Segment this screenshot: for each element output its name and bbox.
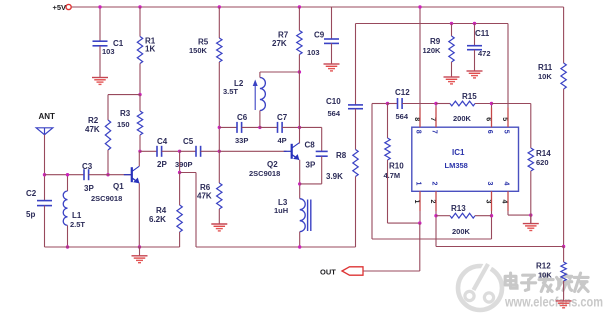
label C11 value 472 bbox=[478, 49, 491, 58]
label ANT bbox=[39, 112, 56, 121]
node junction pin7-R15 bbox=[434, 102, 437, 105]
capacitor C1 bbox=[93, 41, 108, 46]
svg-text:C12: C12 bbox=[395, 88, 410, 97]
label R3 bbox=[120, 109, 131, 118]
resistor R1 bbox=[137, 37, 142, 64]
svg-text:7: 7 bbox=[429, 117, 436, 121]
svg-text:1: 1 bbox=[415, 182, 422, 186]
svg-text:R13: R13 bbox=[451, 204, 466, 213]
svg-text:R4: R4 bbox=[156, 206, 167, 215]
watermark logo circle bbox=[458, 263, 502, 310]
svg-text:200K: 200K bbox=[452, 227, 471, 236]
svg-text:47K: 47K bbox=[85, 125, 100, 134]
label R8 bbox=[336, 151, 347, 160]
wire R8 to rail bbox=[355, 177, 357, 248]
wire rail right corner bbox=[563, 7, 565, 63]
label L2 value 3.5T bbox=[223, 87, 238, 96]
node junction pin4-R14 bbox=[529, 213, 532, 216]
node junction R10 top bbox=[386, 102, 389, 105]
svg-text:6: 6 bbox=[484, 117, 491, 121]
svg-text:564: 564 bbox=[396, 112, 409, 121]
svg-text:C4: C4 bbox=[157, 137, 168, 146]
label R14 bbox=[536, 149, 551, 158]
node junction rail-R1 bbox=[138, 5, 141, 8]
svg-text:103: 103 bbox=[307, 48, 320, 57]
pin name 5 inside bbox=[503, 130, 510, 134]
label C5 value 390P bbox=[175, 160, 193, 169]
label C2 value 5p bbox=[26, 210, 35, 219]
svg-text:8: 8 bbox=[413, 117, 420, 121]
pin number 2 outside bbox=[429, 200, 436, 204]
resistor R5 bbox=[217, 38, 222, 62]
svg-text:C6: C6 bbox=[237, 113, 248, 122]
svg-text:3.9K: 3.9K bbox=[326, 172, 343, 181]
wire pin4 chain bbox=[508, 191, 531, 215]
label R13 bbox=[451, 204, 466, 213]
wire nodeA to C5 bbox=[180, 150, 196, 152]
resistor R4 bbox=[177, 205, 182, 232]
transistor Q2 bbox=[284, 143, 300, 160]
wire pin8 to rail bbox=[419, 7, 421, 127]
wire C6 line left bbox=[219, 126, 237, 128]
svg-text:C9: C9 bbox=[314, 31, 325, 40]
resistor R2 bbox=[105, 120, 110, 150]
wire C1 from rail bbox=[99, 7, 101, 41]
pin name 6 inside bbox=[486, 130, 493, 134]
node junction emitter-rail bbox=[138, 245, 141, 248]
node junction L2-R7 bbox=[298, 70, 301, 73]
label R11 value 10K bbox=[538, 72, 552, 81]
label C11 bbox=[475, 29, 490, 38]
label L1 value 2.5T bbox=[70, 220, 85, 229]
label L3 bbox=[278, 198, 288, 207]
svg-text:OUT: OUT bbox=[320, 268, 336, 277]
label R13 value 200K bbox=[452, 227, 471, 236]
svg-text:3P: 3P bbox=[306, 161, 316, 170]
svg-text:1K: 1K bbox=[145, 45, 155, 54]
label C7 value 4P bbox=[278, 136, 287, 145]
watermark char you bbox=[574, 273, 588, 291]
svg-text:4: 4 bbox=[503, 182, 510, 186]
svg-text:Q1: Q1 bbox=[113, 182, 124, 191]
svg-text:4.7M: 4.7M bbox=[384, 171, 401, 180]
svg-text:2: 2 bbox=[431, 182, 438, 186]
svg-text:2: 2 bbox=[429, 200, 436, 204]
svg-text:ANT: ANT bbox=[39, 112, 56, 121]
pin number 7 outside bbox=[429, 117, 436, 121]
svg-text:10K: 10K bbox=[538, 72, 552, 81]
label R14 value 620 bbox=[536, 158, 549, 167]
wire collector to C4 bbox=[140, 150, 157, 152]
node junction B R5-R6-base bbox=[218, 150, 221, 153]
node junction pin1-out bbox=[418, 221, 421, 224]
wire pin7 stub bbox=[435, 104, 437, 128]
label C5 bbox=[183, 137, 194, 146]
inductor L2 bbox=[260, 78, 266, 111]
label R10 bbox=[389, 162, 404, 171]
svg-text:C10: C10 bbox=[326, 97, 341, 106]
wire C5 to nodeB bbox=[201, 150, 220, 152]
label R6 bbox=[200, 183, 211, 192]
svg-text:C7: C7 bbox=[277, 113, 288, 122]
node junction L3-rail bbox=[298, 245, 301, 248]
wire Q1 collector up bbox=[138, 151, 140, 166]
label C1 bbox=[113, 39, 124, 48]
watermark char shao bbox=[557, 274, 572, 290]
wire C4 to nodeA bbox=[162, 150, 180, 152]
resistor R14 bbox=[528, 148, 533, 171]
label C1 value 103 bbox=[102, 47, 115, 56]
ground under R6 bbox=[211, 224, 227, 231]
wire L1 bottom bbox=[67, 225, 69, 247]
ground under Q1 emitter bbox=[132, 247, 148, 263]
svg-text:R9: R9 bbox=[430, 37, 441, 46]
label R8 value 3.9K bbox=[326, 172, 343, 181]
label R9 value 120K bbox=[423, 46, 442, 55]
wire C9 to ground bbox=[331, 43, 333, 64]
svg-text:L1: L1 bbox=[72, 211, 82, 220]
wire base line left bbox=[45, 174, 85, 176]
resistor R11 bbox=[561, 63, 566, 89]
svg-text:472: 472 bbox=[478, 49, 491, 58]
wire C10 to R8 bbox=[355, 109, 357, 150]
node junction C7-collector bbox=[298, 126, 301, 129]
label C6 value 33P bbox=[235, 136, 248, 145]
svg-text:150: 150 bbox=[117, 120, 130, 129]
capacitor C5 bbox=[196, 146, 201, 157]
resistor R6 bbox=[217, 183, 222, 209]
node junction A C4-C5-R4 bbox=[178, 150, 181, 153]
label C4 value 2P bbox=[157, 160, 167, 169]
svg-text:C5: C5 bbox=[183, 137, 194, 146]
svg-text:R2: R2 bbox=[88, 116, 99, 125]
pin number 4 outside bbox=[501, 200, 508, 204]
label C12 bbox=[395, 88, 410, 97]
label C3 bbox=[82, 162, 93, 171]
svg-text:4P: 4P bbox=[278, 136, 287, 145]
wire rail to R5 bbox=[218, 7, 220, 38]
label L2 bbox=[234, 79, 244, 88]
resistor R9 bbox=[449, 36, 454, 62]
svg-text:2SC9018: 2SC9018 bbox=[249, 169, 280, 178]
label C4 bbox=[157, 137, 168, 146]
node junction rail-R7 bbox=[298, 5, 301, 8]
ground under R14 bbox=[523, 215, 539, 230]
svg-text:6: 6 bbox=[486, 130, 493, 134]
resistor R12 bbox=[561, 262, 566, 281]
watermark char zi bbox=[522, 275, 536, 290]
capacitor C6 bbox=[237, 122, 242, 133]
pin stubs of IC1 bbox=[420, 108, 508, 212]
pin number 5 outside bbox=[501, 117, 508, 121]
wire Q1 emitter down bbox=[138, 183, 140, 247]
watermark url text bbox=[504, 295, 603, 310]
svg-text:1uH: 1uH bbox=[274, 206, 288, 215]
label R3 value 150 bbox=[117, 120, 130, 129]
label R2 bbox=[88, 116, 99, 125]
wire right rail bbox=[196, 246, 356, 248]
antenna ANT bbox=[36, 128, 53, 135]
svg-text:2.5T: 2.5T bbox=[70, 220, 85, 229]
pin name 2 inside bbox=[431, 182, 438, 186]
svg-text:8: 8 bbox=[415, 130, 422, 134]
node junction bias-R9 bbox=[450, 22, 453, 25]
watermark char fa bbox=[539, 274, 553, 291]
svg-text:27K: 27K bbox=[272, 39, 287, 48]
resistor R13 bbox=[450, 213, 475, 218]
label Q2 bbox=[267, 160, 278, 169]
resistor R10 bbox=[385, 138, 390, 160]
ground under R12 bbox=[556, 301, 572, 308]
ground under R9 bbox=[444, 77, 460, 84]
node junction pin6-R15 bbox=[490, 102, 493, 105]
svg-text:C1: C1 bbox=[113, 39, 124, 48]
wire C2 to left rail bbox=[44, 206, 46, 247]
svg-text:564: 564 bbox=[328, 109, 341, 118]
wire pin3 chain bbox=[372, 104, 492, 240]
node junction R1-R2-R3 bbox=[138, 93, 141, 96]
wire R1 to node bbox=[139, 64, 141, 95]
pin name 8 inside bbox=[415, 130, 422, 134]
label Q1 bbox=[113, 182, 124, 191]
capacitor C3 bbox=[84, 169, 89, 180]
svg-text:C3: C3 bbox=[82, 162, 93, 171]
capacitor C8 bbox=[316, 151, 328, 156]
svg-text:+5V: +5V bbox=[53, 3, 67, 12]
label C6 bbox=[237, 113, 248, 122]
wire L2 top corner bbox=[260, 72, 300, 78]
capacitor C10 bbox=[348, 105, 363, 109]
inductor L3 bbox=[300, 199, 306, 232]
resistor R7 bbox=[297, 31, 302, 55]
wire C12 line left corner bbox=[372, 103, 388, 105]
wire node to R2 top bbox=[108, 95, 140, 120]
wire A2 to right rail bbox=[180, 173, 196, 248]
wire pin1 stub bbox=[419, 191, 421, 223]
svg-text:2SC9018: 2SC9018 bbox=[91, 194, 122, 203]
pin name 7 inside bbox=[431, 130, 438, 134]
svg-text:120K: 120K bbox=[423, 46, 442, 55]
wire Q2 collector bbox=[299, 127, 301, 143]
label L3 value 1uH bbox=[274, 206, 288, 215]
svg-text:5: 5 bbox=[501, 117, 508, 121]
wire R11 down bbox=[563, 89, 565, 247]
wire pin7node to R15 bbox=[436, 103, 450, 105]
pin number 6 outside bbox=[484, 117, 491, 121]
pin name 3 inside bbox=[486, 182, 493, 186]
node junction bias-C11 bbox=[473, 22, 476, 25]
label R12 value 10K bbox=[538, 271, 552, 280]
svg-text:R12: R12 bbox=[536, 262, 551, 271]
port OUT arrow bbox=[342, 267, 363, 275]
wire R7node down to C7 node bbox=[298, 72, 300, 127]
wire rail to R1 bbox=[139, 7, 141, 37]
wire base line right bbox=[89, 174, 132, 176]
wire R13 leads bbox=[436, 215, 492, 217]
label C9 value 103 bbox=[307, 48, 320, 57]
svg-text:3P: 3P bbox=[84, 184, 94, 193]
label R1 bbox=[145, 37, 156, 46]
wire bias to C11 bbox=[474, 24, 476, 46]
resistor R8 bbox=[353, 150, 358, 177]
label Q1 part 2SC9018 bbox=[91, 194, 122, 203]
wire C1 to ground bbox=[99, 46, 101, 78]
capacitor C9 bbox=[324, 39, 339, 43]
label C2 bbox=[26, 189, 37, 198]
resistor R3 bbox=[137, 111, 142, 135]
wire L3 bottom bbox=[299, 232, 301, 247]
capacitor C4 bbox=[157, 146, 162, 157]
label R4 value 6.2K bbox=[149, 215, 166, 224]
node junction L2 bottom bbox=[258, 126, 261, 129]
wire left ground rail bbox=[45, 246, 180, 248]
op-amp IC1 LM358 box bbox=[412, 127, 519, 191]
wire R2 to base line bbox=[107, 150, 109, 175]
label C8 value 3P bbox=[306, 161, 316, 170]
wire C8 top branch bbox=[300, 127, 322, 151]
wire C12 to pin7 node bbox=[402, 103, 436, 105]
label R15 value 200K bbox=[453, 114, 472, 123]
node junction rail-R5 bbox=[218, 5, 221, 8]
node junction L1-rail bbox=[66, 245, 69, 248]
wire pin6node to R14 bbox=[492, 104, 531, 149]
wire L2 bottom lead bbox=[259, 111, 261, 128]
wire out drop bbox=[363, 223, 420, 271]
wire to R12 bbox=[563, 247, 565, 263]
svg-text:C2: C2 bbox=[26, 189, 37, 198]
svg-text:390P: 390P bbox=[175, 160, 193, 169]
label C8 bbox=[305, 141, 316, 150]
wire R3 to collector node bbox=[139, 135, 141, 151]
node junction emitter-C8 bbox=[298, 182, 301, 185]
svg-text:C11: C11 bbox=[475, 29, 490, 38]
power port +5V terminal circle bbox=[66, 4, 71, 9]
pin name 4 inside bbox=[503, 182, 510, 186]
wire C11 to ground bbox=[474, 50, 476, 71]
node junction rail-pin8 bbox=[418, 5, 421, 8]
wire bias line top bbox=[356, 23, 509, 25]
wire C6 to L2node bbox=[242, 126, 260, 128]
wire C8 bottom branch bbox=[300, 156, 322, 184]
capacitor C11 bbox=[467, 46, 482, 50]
label C9 bbox=[314, 31, 325, 40]
label R10 value 4.7M bbox=[384, 171, 401, 180]
svg-text:10K: 10K bbox=[538, 271, 552, 280]
pin number 8 outside bbox=[413, 117, 420, 121]
wire antenna down bbox=[44, 135, 46, 201]
svg-text:3: 3 bbox=[486, 182, 493, 186]
wire R15 to pin6 node bbox=[475, 103, 492, 105]
svg-text:103: 103 bbox=[102, 47, 115, 56]
node junction rail-C1 bbox=[98, 5, 101, 8]
label IC1 bbox=[452, 148, 465, 157]
label R12 bbox=[536, 262, 551, 271]
svg-text:3: 3 bbox=[485, 200, 492, 204]
label R4 bbox=[156, 206, 167, 215]
label C7 bbox=[277, 113, 288, 122]
wire R14 to gnd node bbox=[530, 171, 532, 224]
label R15 bbox=[462, 92, 477, 101]
svg-text:33P: 33P bbox=[235, 136, 248, 145]
svg-text:7: 7 bbox=[431, 130, 438, 134]
svg-text:47K: 47K bbox=[197, 192, 212, 201]
label R2 value 47K bbox=[85, 125, 100, 134]
svg-text:R15: R15 bbox=[462, 92, 477, 101]
wire R10 to out node bbox=[388, 160, 420, 223]
wire R4 to left rail bbox=[179, 232, 181, 247]
svg-text:www.elecfans.com: www.elecfans.com bbox=[504, 295, 603, 310]
wire R9 to ground bbox=[451, 62, 453, 77]
wire nodeA down bbox=[179, 151, 181, 172]
node junction R2-base bbox=[106, 173, 109, 176]
transistor Q1 bbox=[124, 166, 140, 183]
svg-text:150K: 150K bbox=[189, 46, 208, 55]
svg-text:5: 5 bbox=[503, 130, 510, 134]
node junction R11-R12-pin2 bbox=[562, 245, 565, 248]
wire nodeB to Q2 base bbox=[219, 150, 286, 152]
label R5 bbox=[198, 38, 209, 47]
label Q2 part 2SC9018 bbox=[249, 169, 280, 178]
label L1 bbox=[72, 211, 82, 220]
label R7 value 27K bbox=[272, 39, 287, 48]
inductor L1 bbox=[63, 191, 67, 225]
svg-text:R14: R14 bbox=[536, 149, 551, 158]
wire R5 down bbox=[218, 62, 220, 183]
pin number 3 outside bbox=[485, 200, 492, 204]
wire bias to R9 bbox=[451, 24, 453, 37]
svg-text:4: 4 bbox=[501, 200, 508, 204]
node junction R3-collector-C4 bbox=[138, 150, 141, 153]
capacitor C12 bbox=[398, 98, 403, 109]
wire R7 to L2 node bbox=[298, 55, 300, 73]
capacitor C2 bbox=[37, 201, 52, 206]
svg-text:LM358: LM358 bbox=[445, 161, 468, 170]
node junction pin2-R13 bbox=[434, 214, 437, 217]
wire pin6 stub bbox=[491, 103, 493, 127]
svg-text:IC1: IC1 bbox=[452, 148, 465, 157]
label C10 bbox=[326, 97, 341, 106]
label C3 value 3P bbox=[84, 184, 94, 193]
svg-text:R10: R10 bbox=[389, 162, 404, 171]
svg-text:2P: 2P bbox=[157, 160, 167, 169]
wire rail to R7 bbox=[298, 7, 300, 31]
label R9 bbox=[430, 37, 441, 46]
svg-text:200K: 200K bbox=[453, 114, 472, 123]
wire C7 to collector node bbox=[282, 126, 299, 128]
watermark char dian bbox=[505, 273, 517, 288]
svg-text:Q2: Q2 bbox=[267, 160, 278, 169]
wire to C12 bbox=[388, 103, 398, 105]
node junction R5-C6line bbox=[218, 126, 221, 129]
pin name 1 inside bbox=[415, 182, 422, 186]
iron core of L3 bbox=[308, 200, 311, 232]
wire +5V top rail bbox=[72, 6, 564, 8]
ground under C9 bbox=[324, 64, 340, 71]
wire bias to pin5 bbox=[507, 24, 509, 128]
svg-text:R11: R11 bbox=[538, 63, 553, 72]
svg-text:1: 1 bbox=[413, 200, 420, 204]
svg-text:620: 620 bbox=[536, 158, 549, 167]
wire L1 top bbox=[67, 175, 69, 191]
svg-text:6.2K: 6.2K bbox=[149, 215, 166, 224]
node junction pin3-R13 bbox=[490, 214, 493, 217]
svg-text:R3: R3 bbox=[120, 109, 131, 118]
node junction A2 bbox=[178, 171, 181, 174]
capacitor C7 bbox=[278, 122, 283, 133]
node junction L1-baseline bbox=[66, 173, 69, 176]
wire R6 to ground bbox=[218, 209, 220, 224]
power label +5V bbox=[53, 3, 67, 12]
